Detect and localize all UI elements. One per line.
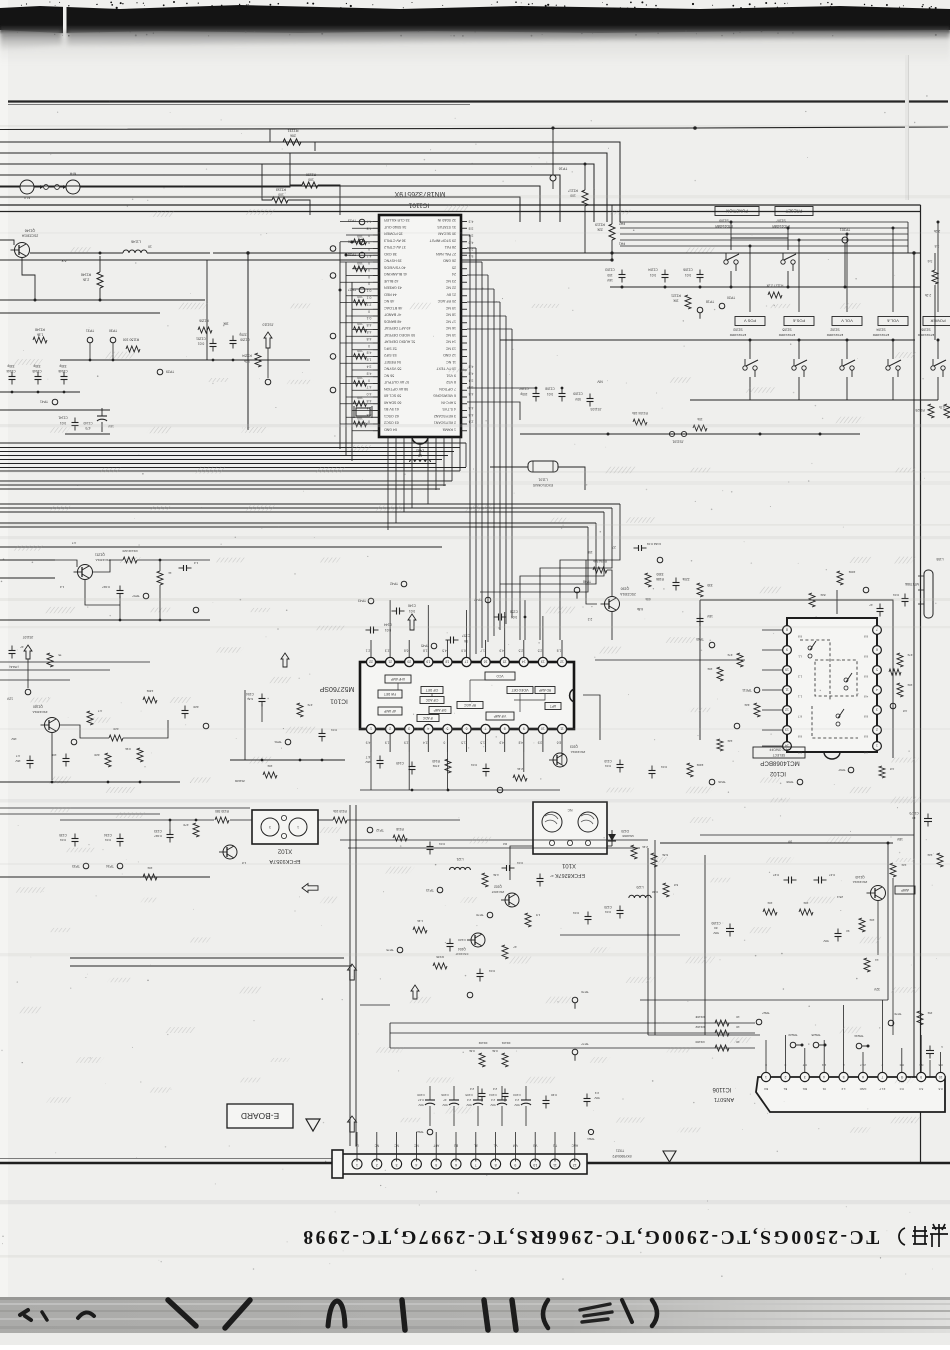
svg-text:S1103: S1103 xyxy=(733,328,742,332)
wire EXCELOMUS left xyxy=(490,466,528,468)
wire loop L3 xyxy=(0,164,594,222)
svg-text:C146: C146 xyxy=(408,604,416,608)
svg-text:3: 3 xyxy=(396,1163,398,1167)
svg-text:FA1: FA1 xyxy=(619,242,625,246)
svg-text:8.8: 8.8 xyxy=(938,1063,943,1067)
label IC102 pin values xyxy=(798,635,869,755)
svg-text:100: 100 xyxy=(357,295,363,299)
svg-text:19: 19 xyxy=(426,659,430,663)
svg-text:R1127 2.2k: R1127 2.2k xyxy=(766,284,783,288)
svg-text:19 NC: 19 NC xyxy=(445,306,456,310)
resistor R152 47k xyxy=(297,703,303,717)
svg-text:45 NC: 45 NC xyxy=(384,299,395,303)
junction L1146 R1146 xyxy=(99,252,102,255)
svg-text:27: 27 xyxy=(612,545,616,549)
svg-text:10k: 10k xyxy=(907,683,912,687)
svg-text:50V: 50V xyxy=(712,931,718,935)
resistor R1154 1.2k xyxy=(255,353,261,367)
svg-text:1k: 1k xyxy=(168,571,172,575)
svg-text:2SC2301A: 2SC2301A xyxy=(95,558,111,562)
svg-text:IC102: IC102 xyxy=(769,770,786,776)
svg-text:C105: C105 xyxy=(465,1093,473,1097)
transistor Q104 KSC1647 xyxy=(467,933,485,947)
svg-text:TP23: TP23 xyxy=(348,219,356,223)
resistor R1104 18k xyxy=(633,419,647,425)
capacitor C1150 220p xyxy=(230,336,237,349)
svg-text:NIV: NIV xyxy=(596,380,602,384)
svg-text:16V: 16V xyxy=(364,760,370,764)
resistor R1123 2.2k right edge xyxy=(932,270,938,284)
svg-text:2SC2301A: 2SC2301A xyxy=(571,750,586,754)
testpoint TP64 xyxy=(734,723,740,729)
svg-text:25: 25 xyxy=(452,265,456,269)
svg-text:R140: R140 xyxy=(432,759,440,763)
transistor Q103 2SC2301A xyxy=(549,753,567,767)
cluster JS1107 left edge xyxy=(24,645,32,659)
svg-text:8.7: 8.7 xyxy=(798,715,803,719)
svg-text:2.2: 2.2 xyxy=(470,1087,475,1091)
testpoint row TPE23 TPE25 TPE34 xyxy=(790,1042,802,1048)
capacitor C108 electrolytic xyxy=(417,1086,435,1126)
svg-text:MC14068BCP: MC14068BCP xyxy=(760,760,800,767)
svg-text:FUNCTION: FUNCTION xyxy=(726,209,748,214)
svg-text:50V: 50V xyxy=(514,1103,519,1107)
capacitor C131 0.01 xyxy=(585,912,592,925)
svg-text:2.2: 2.2 xyxy=(493,1087,498,1091)
svg-text:4.0: 4.0 xyxy=(367,392,372,396)
wire S1102 bottom xyxy=(846,377,848,400)
svg-text:6.8k: 6.8k xyxy=(637,607,643,611)
wire R1146 bottom lead xyxy=(99,288,101,300)
component MT1758 vertical right edge xyxy=(918,570,933,618)
junction y287 x788 xyxy=(787,286,790,289)
svg-text:R1130: R1130 xyxy=(306,172,316,176)
svg-text:8.8: 8.8 xyxy=(798,751,803,755)
svg-text:C1103: C1103 xyxy=(605,268,615,272)
capacitor C144 0.01 xyxy=(366,627,379,634)
svg-text:16V: 16V xyxy=(10,737,16,741)
wire bus y=340 xyxy=(500,339,915,341)
svg-text:C133: C133 xyxy=(154,829,162,833)
svg-text:4.3: 4.3 xyxy=(469,220,474,224)
svg-text:R1119: R1119 xyxy=(595,223,605,227)
testpoint TP12 xyxy=(367,827,373,833)
svg-text:TC-2500GS,TC-2900G,TC-2966RS,T: TC-2500GS,TC-2900G,TC-2966RS,TC-2997G,TC… xyxy=(301,1226,879,1247)
svg-text:0.01: 0.01 xyxy=(489,969,495,973)
connector TB1 pin top labels xyxy=(355,1144,578,1148)
label S1105 xyxy=(782,328,791,332)
junction S1102 y340 xyxy=(846,339,849,342)
svg-text:GND: GND xyxy=(859,1087,867,1091)
svg-text:4.8: 4.8 xyxy=(890,767,895,771)
wire bus y=670 left xyxy=(0,669,110,671)
testpoint TP50 xyxy=(203,723,209,729)
label IC1101 part number xyxy=(394,190,445,197)
svg-text:5 AFC-IN: 5 AFC-IN xyxy=(441,400,456,404)
svg-text:4.8: 4.8 xyxy=(864,695,869,699)
svg-text:C149: C149 xyxy=(396,761,404,765)
svg-text:22k: 22k xyxy=(744,703,749,707)
svg-text:TP42: TP42 xyxy=(390,582,398,586)
svg-text:12k: 12k xyxy=(727,739,732,743)
testpoint TP25b xyxy=(497,787,503,793)
svg-text:8.8: 8.8 xyxy=(864,735,869,739)
svg-text:62 OSC1: 62 OSC1 xyxy=(384,414,399,418)
capacitor C102 0.30 xyxy=(543,1096,550,1109)
label 18V xyxy=(896,837,903,841)
upper right of X101 cluster wires xyxy=(648,840,705,1035)
svg-text:4 S-TVS: 4 S-TVS xyxy=(442,407,456,411)
label 6.8 xyxy=(62,259,67,263)
capacitor C136 0.01 xyxy=(427,842,434,855)
svg-text:21.7: 21.7 xyxy=(860,1063,866,1067)
wire below X101 xyxy=(560,934,680,936)
switch label POWER box xyxy=(923,317,950,326)
svg-text:IC101: IC101 xyxy=(330,697,348,704)
svg-text:8.8: 8.8 xyxy=(864,655,869,659)
svg-text:2SC2301A: 2SC2301A xyxy=(21,234,38,238)
label IC101 part number xyxy=(319,685,354,692)
junction S1106 y340 xyxy=(937,339,940,342)
wire S1107 down xyxy=(787,271,789,287)
testpoint TP27 xyxy=(359,287,365,293)
svg-text:21 8V: 21 8V xyxy=(446,292,456,296)
svg-text:0.47: 0.47 xyxy=(418,1098,424,1102)
wire JS1107 down xyxy=(27,659,29,688)
svg-text:R1181: R1181 xyxy=(695,1015,704,1019)
svg-text:C108: C108 xyxy=(417,1093,425,1097)
capacitor C1145 330p xyxy=(35,372,42,385)
svg-text:S1105: S1105 xyxy=(782,328,791,332)
svg-text:L1146: L1146 xyxy=(131,239,141,243)
component X102 EFCK9357A outline xyxy=(252,810,318,844)
svg-text:0.01: 0.01 xyxy=(60,838,66,842)
testpoint TP13 xyxy=(437,887,443,893)
svg-text:0: 0 xyxy=(368,282,370,286)
svg-text:0.47: 0.47 xyxy=(829,873,835,877)
wire X102 out2 xyxy=(347,819,460,821)
svg-text:1.7: 1.7 xyxy=(480,649,485,653)
capacitor C1140 470/16V electrolytic xyxy=(97,415,107,417)
testpoint TP16 with stem xyxy=(550,175,556,189)
svg-text:ETD21408R: ETD21408R xyxy=(715,224,733,228)
svg-text:16V: 16V xyxy=(606,278,613,282)
wire L1146 right xyxy=(147,252,210,254)
resistor R1156 on IC1101 left fan xyxy=(354,381,367,387)
svg-text:47: 47 xyxy=(550,874,554,878)
wire R130 to X102 xyxy=(230,819,252,821)
svg-text:R1180: R1180 xyxy=(695,1040,704,1044)
wire long bus y=128 xyxy=(0,127,948,130)
svg-text:Q190: Q190 xyxy=(621,587,630,591)
svg-text:2.2: 2.2 xyxy=(588,617,593,621)
wire R1123 top xyxy=(934,253,936,270)
connector TB1 outline xyxy=(332,1150,587,1178)
svg-text:55 VSYNC: 55 VSYNC xyxy=(384,367,402,371)
svg-text:3.4: 3.4 xyxy=(469,378,474,382)
svg-text:C1146: C1146 xyxy=(58,369,67,373)
svg-text:220p: 220p xyxy=(239,333,247,337)
svg-text:TPE1: TPE1 xyxy=(587,1137,595,1141)
crystal X1100 xyxy=(354,406,372,418)
svg-text:R1113: R1113 xyxy=(276,187,286,191)
diode D120 MA4068 xyxy=(608,830,616,846)
capacitor C1101 2.2 50V xyxy=(479,1089,486,1102)
wire collector x=352 xyxy=(351,282,353,461)
junction x888 xyxy=(887,842,890,845)
wire horizontal rule y=101 xyxy=(8,100,948,102)
svg-text:14 NC: 14 NC xyxy=(445,340,456,344)
capacitor C165 xyxy=(697,614,704,627)
switch label POS.& box xyxy=(784,317,814,326)
label IC1106 part xyxy=(714,1096,734,1102)
wire C133 lead xyxy=(169,820,171,830)
junction y300 a xyxy=(34,299,37,302)
testpoint below JS1110 xyxy=(265,379,271,385)
transistor Q1140 2SC2331A xyxy=(867,886,886,901)
junction fan3 xyxy=(339,289,342,292)
wire y=1005 short xyxy=(360,1004,390,1006)
svg-text:TP78: TP78 xyxy=(476,913,484,917)
capacitor C1142 0.01 xyxy=(63,754,70,767)
right edge caps near IC1106 xyxy=(926,1046,934,1059)
frame line y=205 xyxy=(0,204,921,206)
wire EXCELOMUS right xyxy=(558,467,585,490)
svg-text:AFC ON/OFF: AFC ON/OFF xyxy=(769,748,788,752)
wire C154 lead xyxy=(261,704,263,722)
capacitor C1146 330p xyxy=(61,372,68,385)
svg-text:10k: 10k xyxy=(767,901,772,905)
svg-text:8.8: 8.8 xyxy=(864,715,869,719)
bottom scan band xyxy=(0,1297,950,1345)
svg-text:DIF AMP: DIF AMP xyxy=(434,708,447,712)
svg-text:4: 4 xyxy=(415,1163,417,1167)
wire IC101 notch right xyxy=(583,695,600,740)
svg-text:50V: 50V xyxy=(574,397,581,401)
capacitor C146 0.01 xyxy=(392,608,405,615)
svg-text:C135: C135 xyxy=(59,833,67,837)
svg-text:M52760SP: M52760SP xyxy=(319,685,354,692)
svg-text:IF ADC: IF ADC xyxy=(422,716,433,720)
label S1109 xyxy=(719,219,729,223)
wire R1117 top xyxy=(584,164,586,190)
wire x=245 drop xyxy=(244,690,246,760)
resistor R136 xyxy=(433,963,447,969)
svg-text:1.2: 1.2 xyxy=(798,675,803,679)
svg-text:0.01: 0.01 xyxy=(685,273,691,277)
svg-text:0.01: 0.01 xyxy=(471,763,477,767)
capacitor C1192 0.27 xyxy=(784,877,797,884)
wire S1105 top xyxy=(798,340,800,359)
svg-text:220: 220 xyxy=(193,705,198,709)
testpoint TP76a xyxy=(467,992,473,998)
ic IC102 internal dashed structure xyxy=(800,640,858,738)
svg-text:C110: C110 xyxy=(604,759,612,763)
svg-text:Q104: Q104 xyxy=(458,947,466,951)
svg-text:SELECT: SELECT xyxy=(773,753,785,757)
svg-text:JS1101: JS1101 xyxy=(672,440,683,444)
svg-text:10: 10 xyxy=(148,245,152,249)
svg-text:TP45: TP45 xyxy=(421,644,429,648)
wire loop L5 xyxy=(0,186,540,222)
svg-text:Q102: Q102 xyxy=(494,885,502,889)
wire TP31 drop xyxy=(89,343,91,360)
capacitor C1145 xyxy=(182,706,189,719)
wire X101 to diode xyxy=(607,845,612,847)
svg-text:0.01: 0.01 xyxy=(650,273,656,277)
junction y287 x622 xyxy=(621,286,624,289)
svg-text:28 FA1: 28 FA1 xyxy=(445,245,456,249)
svg-text:0.7: 0.7 xyxy=(802,1063,807,1067)
svg-text:TPE34: TPE34 xyxy=(854,1034,864,1038)
label TP40b xyxy=(696,637,704,641)
wire S1105 bottom xyxy=(798,377,800,400)
svg-text:0.01: 0.01 xyxy=(198,342,205,346)
svg-text:1.3: 1.3 xyxy=(822,1063,827,1067)
capacitor C1106 0.01 xyxy=(697,270,704,283)
wire X102 out xyxy=(318,819,333,821)
svg-text:M-A: M-A xyxy=(69,172,76,176)
testpoint TP79r xyxy=(888,1020,894,1026)
wire bus y=782 xyxy=(0,781,180,783)
label AMP box xyxy=(895,886,915,894)
heavy bottom rule y=1163 xyxy=(0,1162,950,1165)
svg-text:TP12: TP12 xyxy=(376,828,384,832)
svg-text:4.8: 4.8 xyxy=(367,227,372,231)
svg-text:14: 14 xyxy=(875,958,879,962)
label JS1106 xyxy=(235,779,246,783)
svg-text:JS1107: JS1107 xyxy=(22,635,33,639)
svg-text:R1104 18k: R1104 18k xyxy=(632,411,648,415)
svg-text:Q1146: Q1146 xyxy=(25,228,36,232)
svg-text:R1121: R1121 xyxy=(671,294,681,298)
svg-text:100: 100 xyxy=(357,416,363,420)
switch label POS V box xyxy=(735,317,765,326)
capacitor C135 0.01 xyxy=(72,834,79,847)
frame right vertical double xyxy=(914,205,921,1163)
resistor R1127 2.2k xyxy=(768,292,782,298)
svg-text:9: 9 xyxy=(786,648,788,652)
label NIV xyxy=(596,380,602,384)
svg-text:1.8: 1.8 xyxy=(557,649,562,653)
wire bus y=313 xyxy=(0,312,160,314)
wire outline box around IC102 xyxy=(700,600,893,758)
wire bus below IC101 xyxy=(360,789,560,791)
svg-text:100: 100 xyxy=(357,349,363,353)
resistor R186 3300 xyxy=(645,573,651,587)
testpoint TP31 xyxy=(87,337,93,343)
label IC1101 refdes xyxy=(408,201,429,208)
svg-text:31 STATUS: 31 STATUS xyxy=(437,225,456,229)
svg-text:RF AGC: RF AGC xyxy=(463,703,476,707)
svg-text:0: 0 xyxy=(368,344,370,348)
svg-text:100: 100 xyxy=(357,261,363,265)
svg-text:330: 330 xyxy=(707,583,713,587)
svg-text:0.01: 0.01 xyxy=(661,765,667,769)
svg-text:C1109: C1109 xyxy=(573,392,583,396)
wire collector x=346 xyxy=(345,262,347,455)
wire y=680 short xyxy=(0,679,70,681)
resistor R117 2.2k xyxy=(631,845,637,859)
testpoint TP34 xyxy=(117,863,123,869)
svg-text:1.5: 1.5 xyxy=(536,913,541,917)
top band speckles xyxy=(17,1,937,37)
wire S1104 bottom xyxy=(892,377,894,400)
svg-text:0: 0 xyxy=(368,233,370,237)
svg-text:0.01: 0.01 xyxy=(511,615,517,619)
svg-text:0.01: 0.01 xyxy=(439,842,445,846)
wire y=843 right xyxy=(660,842,893,844)
junction TPE25 xyxy=(824,1044,827,1047)
svg-text:C1104: C1104 xyxy=(648,268,658,272)
svg-text:AF AMP: AF AMP xyxy=(384,709,396,713)
svg-text:33 CLR KILLER: 33 CLR KILLER xyxy=(384,218,410,222)
svg-text:TP26: TP26 xyxy=(718,780,726,784)
svg-text:L155: L155 xyxy=(936,557,943,561)
jumper JS1101 circles xyxy=(669,431,686,436)
svg-text:100: 100 xyxy=(357,376,363,380)
fold streak right side xyxy=(905,55,909,200)
wire vertical x=207 xyxy=(206,260,208,360)
svg-text:100p: 100p xyxy=(520,392,527,396)
svg-text:220k: 220k xyxy=(696,763,703,767)
svg-text:16V: 16V xyxy=(15,759,20,763)
capacitor C1146b xyxy=(9,646,16,659)
svg-text:16: 16 xyxy=(484,659,488,663)
resistor R1157 on IC1101 left fan xyxy=(354,401,367,407)
svg-text:10k: 10k xyxy=(697,417,703,421)
svg-text:1 RAM&: 1 RAM& xyxy=(442,427,456,431)
label S1104 xyxy=(876,328,885,332)
svg-text:44 RED: 44 RED xyxy=(384,292,397,296)
capacitor C1143 4.7 xyxy=(27,756,34,769)
svg-text:L1: L1 xyxy=(798,655,802,659)
resistor R1183 12k xyxy=(890,863,896,877)
junction on y=128 bus xyxy=(693,126,697,130)
label IC1101 left stub values xyxy=(367,220,372,424)
wire connector pin leads up xyxy=(357,1132,575,1162)
resistor R1190 xyxy=(917,1011,923,1025)
svg-text:1.5: 1.5 xyxy=(480,741,485,745)
wire rule echo xyxy=(8,104,470,106)
svg-text:60 SDA A0: 60 SDA A0 xyxy=(384,400,401,404)
resistor R1172 xyxy=(897,683,903,697)
svg-text:5.1: 5.1 xyxy=(469,254,474,258)
junction R1117 xyxy=(584,163,587,166)
svg-text:JS1110: JS1110 xyxy=(262,323,273,327)
svg-text:58 AV OPTION: 58 AV OPTION xyxy=(384,387,409,391)
svg-text:R1148: R1148 xyxy=(35,328,45,332)
svg-text:29 STOP INPUT: 29 STOP INPUT xyxy=(429,238,456,242)
svg-text:11: 11 xyxy=(785,688,789,692)
capacitor C101 3.3 50V xyxy=(584,1094,591,1107)
wire vertical pair x=352 xyxy=(350,805,356,1146)
svg-text:15k: 15k xyxy=(927,1011,932,1015)
svg-text:6.8k: 6.8k xyxy=(662,853,668,857)
title CJK glyph blocks xyxy=(899,1224,948,1247)
svg-text:22: 22 xyxy=(369,659,373,663)
svg-text:C134: C134 xyxy=(104,833,112,837)
svg-text:7: 7 xyxy=(475,1163,477,1167)
label IC1106 pin top values xyxy=(765,1063,943,1067)
resistor R1184 10k xyxy=(859,918,865,932)
label M-A left xyxy=(23,196,30,200)
wire bus y=434 xyxy=(520,433,860,435)
resistor R182 330 xyxy=(697,583,703,597)
svg-text:8.8: 8.8 xyxy=(864,635,869,639)
wire right cap down xyxy=(929,1060,931,1077)
svg-text:150: 150 xyxy=(587,550,593,554)
